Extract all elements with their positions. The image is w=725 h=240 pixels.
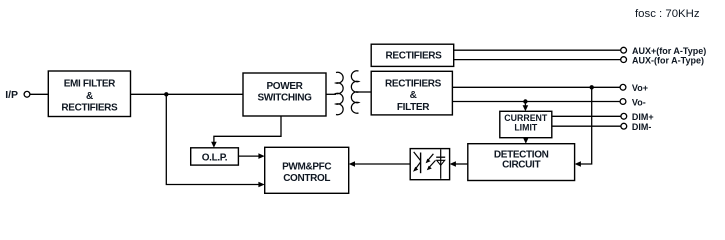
wire Vo- bbox=[452, 101, 620, 103]
junction node on Vo- bbox=[523, 99, 527, 103]
svg-text:CIRCUIT: CIRCUIT bbox=[502, 160, 540, 171]
terminal Vo- bbox=[620, 99, 626, 105]
svg-text:I/P: I/P bbox=[5, 89, 18, 101]
phototransistor of optocoupler bbox=[420, 153, 422, 174]
block RECTIFIERS & FILTER bbox=[371, 71, 452, 115]
block POWER SWITCHING bbox=[243, 73, 326, 116]
wire DIM+ bbox=[552, 115, 621, 117]
svg-text:CONTROL: CONTROL bbox=[283, 173, 330, 184]
wire Vo+ bbox=[452, 86, 620, 88]
svg-text:SWITCHING: SWITCHING bbox=[257, 93, 312, 104]
svg-text:POWER: POWER bbox=[266, 81, 303, 92]
svg-text:CURRENT: CURRENT bbox=[504, 113, 548, 123]
wire POWER SWITCHING bottom to O.L.P. bbox=[214, 116, 281, 144]
wire transformer secondary to RECTIFIERS & FILTER bbox=[359, 91, 372, 93]
wire AUX- bbox=[454, 59, 621, 61]
wire DIM- bbox=[552, 125, 621, 127]
svg-text:DIM+: DIM+ bbox=[632, 112, 654, 122]
block PWM&PFC CONTROL bbox=[265, 147, 349, 193]
wire EMI FILTER to POWER SWITCHING bbox=[131, 93, 244, 95]
wire POWER SWITCHING to transformer primary bbox=[326, 93, 336, 95]
terminal DIM+ bbox=[621, 113, 627, 119]
LED of optocoupler bbox=[440, 149, 442, 179]
svg-text:LIMIT: LIMIT bbox=[514, 123, 538, 133]
input terminal I/P bbox=[5, 89, 30, 101]
wire optocoupler to PWM&PFC CONTROL bbox=[353, 163, 411, 165]
svg-text:PWM&PFC: PWM&PFC bbox=[282, 161, 331, 172]
wire Vo- junction down to CURRENT LIMIT bbox=[524, 102, 526, 107]
wire Vo+ junction down and left into DETECTION CIRCUIT right bbox=[579, 87, 592, 164]
terminal AUX+ bbox=[621, 47, 627, 53]
svg-text:DIM-: DIM- bbox=[632, 122, 652, 132]
svg-text:EMI FILTER: EMI FILTER bbox=[64, 79, 116, 90]
optocoupler U1 bbox=[410, 149, 449, 180]
block RECTIFIERS (aux) bbox=[371, 44, 454, 66]
svg-text:RECTIFIERS: RECTIFIERS bbox=[385, 78, 442, 89]
terminal Vo+ bbox=[620, 84, 626, 90]
wire O.L.P. to PWM&PFC CONTROL bbox=[238, 155, 260, 157]
arrowhead into DETECTION CIRCUIT top bbox=[523, 138, 529, 144]
arrowhead into optocoupler right bbox=[450, 161, 456, 167]
arrowhead into PWM&PFC CONTROL right bbox=[349, 161, 355, 167]
block DETECTION CIRCUIT bbox=[468, 144, 575, 181]
wire AUX+ bbox=[454, 49, 621, 51]
svg-text:RECTIFIERS: RECTIFIERS bbox=[61, 103, 118, 114]
arrowhead into DETECTION CIRCUIT right bbox=[575, 161, 581, 167]
block O.L.P. bbox=[191, 148, 239, 165]
svg-text:AUX-(for A-Type): AUX-(for A-Type) bbox=[632, 55, 704, 65]
wire I/P to EMI FILTER bbox=[30, 93, 48, 95]
terminal AUX- bbox=[621, 57, 627, 63]
svg-text:FILTER: FILTER bbox=[397, 102, 430, 113]
svg-text:AUX+(for A-Type): AUX+(for A-Type) bbox=[632, 46, 706, 56]
svg-text:fosc : 70KHz: fosc : 70KHz bbox=[635, 8, 700, 20]
transformer T1 primary winding bbox=[336, 72, 343, 114]
svg-text:O.L.P.: O.L.P. bbox=[202, 152, 228, 163]
svg-text:&: & bbox=[410, 90, 417, 101]
junction node on Vo+ bbox=[590, 85, 594, 89]
wire DETECTION CIRCUIT to optocoupler bbox=[454, 163, 468, 165]
terminal DIM- bbox=[621, 123, 627, 129]
junction node after EMI FILTER bbox=[164, 92, 168, 96]
transformer T1 secondary winding bbox=[351, 71, 358, 114]
svg-text:RECTIFIERS: RECTIFIERS bbox=[386, 50, 443, 61]
svg-text:Vo-: Vo- bbox=[632, 97, 646, 107]
wire junction down and right to PWM&PFC CONTROL bbox=[166, 94, 260, 184]
svg-text:Vo+: Vo+ bbox=[632, 83, 648, 93]
wire CURRENT LIMIT down to DETECTION CIRCUIT bbox=[525, 138, 527, 140]
block EMI FILTER & RECTIFIERS bbox=[48, 71, 130, 117]
svg-text:&: & bbox=[86, 91, 93, 102]
arrowhead into CURRENT LIMIT top bbox=[523, 105, 529, 111]
arrowhead into PWM&PFC CONTROL left (bottom rail) bbox=[258, 182, 264, 188]
arrowhead into O.L.P. top bbox=[211, 142, 217, 148]
light arrows of optocoupler bbox=[428, 154, 434, 161]
block CURRENT LIMIT bbox=[500, 111, 552, 137]
arrowhead into PWM&PFC CONTROL left bbox=[258, 153, 264, 159]
